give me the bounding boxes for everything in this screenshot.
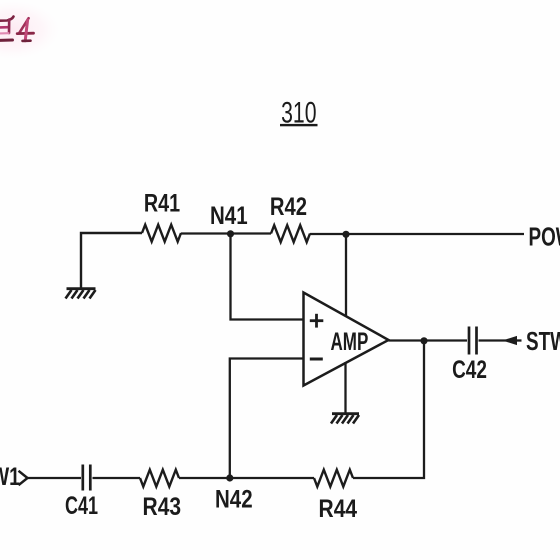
svg-text:R43: R43 bbox=[143, 492, 182, 520]
svg-text:C41: C41 bbox=[65, 491, 98, 520]
wire: feedback from output junction down to R44 bbox=[353, 341, 424, 479]
wire: N42 to R43 bbox=[179, 477, 230, 479]
wire: N41 to R42 bbox=[231, 232, 272, 234]
resistor R43 bbox=[140, 470, 179, 487]
wire: R41 to N41 bbox=[181, 232, 231, 234]
svg-text:C42: C42 bbox=[452, 355, 487, 383]
wire: N41 down and right to op-amp + input bbox=[231, 234, 304, 320]
op-amp - pin mark bbox=[310, 358, 323, 361]
ground GND1 bbox=[66, 289, 96, 299]
svg-text:R42: R42 bbox=[270, 192, 307, 221]
wire: supply junction to POW terminal bbox=[346, 233, 524, 235]
resistor R42 bbox=[271, 225, 310, 242]
node N41 (junction dot) bbox=[227, 230, 234, 237]
svg-text:SW1: SW1 bbox=[0, 462, 20, 490]
junction: output node bbox=[420, 337, 427, 344]
svg-text:R41: R41 bbox=[144, 189, 180, 217]
svg-text:R44: R44 bbox=[319, 494, 358, 522]
op-amp U1 AMP bbox=[304, 293, 389, 386]
SW1 input terminal chevron bbox=[19, 471, 28, 485]
capacitor C42 bbox=[469, 327, 477, 355]
svg-text:N42: N42 bbox=[215, 484, 253, 512]
wire: C42 to STW arrow bbox=[479, 339, 507, 341]
figure label 도면4 (clipped at left edge) bbox=[0, 17, 34, 41]
pink halo behind figure label bbox=[0, 0, 64, 62]
capacitor C41 bbox=[83, 465, 91, 491]
svg-text:STW: STW bbox=[526, 327, 560, 355]
wire: R43 to C41 bbox=[93, 477, 141, 479]
node N42 (junction dot) bbox=[226, 474, 233, 481]
junction: supply tap on POW rail bbox=[342, 231, 349, 238]
svg-text:AMP: AMP bbox=[331, 328, 369, 356]
arrow to STW terminal bbox=[504, 337, 517, 345]
ground GND2 bbox=[331, 414, 359, 424]
resistor R41 bbox=[142, 225, 181, 242]
wire: op-amp ground pin bbox=[344, 362, 346, 413]
wire: op-amp V+ pin from supply junction bbox=[345, 234, 347, 317]
resistor R44 bbox=[314, 470, 353, 487]
svg-text:N41: N41 bbox=[210, 201, 248, 229]
title 310 bbox=[280, 97, 318, 129]
wire: op-amp - input left and down to N42 bbox=[230, 359, 303, 479]
wire: op-amp output to C42 bbox=[389, 339, 468, 341]
wire: arrow stub bbox=[515, 339, 522, 341]
wire: C41 to SW1 terminal bbox=[28, 477, 82, 479]
svg-text:POW: POW bbox=[529, 223, 560, 251]
wire: R44 to N42 bbox=[230, 477, 314, 479]
wire: R42 to supply junction bbox=[310, 233, 346, 235]
op-amp + pin mark bbox=[310, 314, 324, 328]
wire: ground riser to top rail corner bbox=[81, 233, 142, 288]
